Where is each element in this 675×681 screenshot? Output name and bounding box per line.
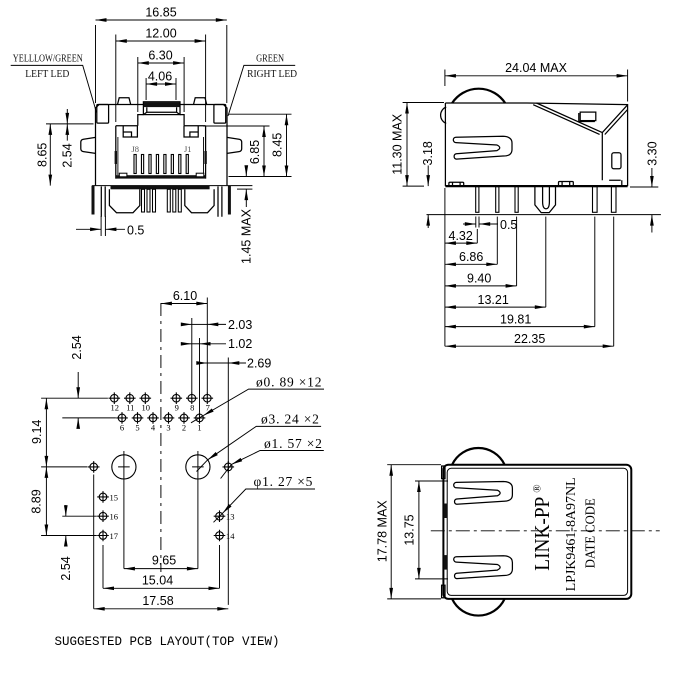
svg-text:12: 12: [111, 403, 120, 413]
svg-text:8.65: 8.65: [36, 143, 50, 167]
svg-text:3: 3: [166, 423, 170, 433]
svg-text:9.65: 9.65: [152, 554, 176, 568]
svg-text:24.04 MAX: 24.04 MAX: [505, 61, 568, 75]
svg-text:13.75: 13.75: [403, 514, 417, 545]
svg-text:φ1. 27 ×5: φ1. 27 ×5: [254, 474, 314, 489]
svg-text:J1: J1: [184, 144, 192, 154]
svg-text:LEFT LED: LEFT LED: [25, 69, 69, 80]
svg-text:2: 2: [182, 423, 186, 433]
svg-text:LINK-PP: LINK-PP: [530, 497, 554, 571]
svg-text:0.5: 0.5: [127, 223, 144, 237]
svg-text:10: 10: [142, 403, 151, 413]
svg-text:9.14: 9.14: [30, 420, 44, 444]
svg-text:3.18: 3.18: [421, 141, 435, 165]
svg-text:17.58: 17.58: [142, 594, 173, 608]
svg-text:4.06: 4.06: [148, 70, 172, 84]
svg-text:J8: J8: [132, 144, 140, 154]
svg-text:2.03: 2.03: [228, 318, 252, 332]
svg-text:2.69: 2.69: [247, 356, 271, 370]
svg-text:ø1. 57 ×2: ø1. 57 ×2: [264, 436, 323, 451]
svg-text:4.32: 4.32: [449, 229, 473, 243]
svg-text:2.54: 2.54: [70, 335, 84, 359]
svg-text:RIGHT LED: RIGHT LED: [247, 69, 297, 80]
svg-text:SUGGESTED PCB LAYOUT(TOP VIEW): SUGGESTED PCB LAYOUT(TOP VIEW): [55, 635, 280, 649]
svg-text:15.04: 15.04: [142, 573, 173, 587]
svg-text:8: 8: [190, 403, 194, 413]
svg-text:ø0. 89 ×12: ø0. 89 ×12: [256, 374, 322, 389]
svg-text:ø3. 24 ×2: ø3. 24 ×2: [261, 411, 320, 426]
svg-text:13: 13: [226, 512, 235, 522]
svg-text:16.85: 16.85: [145, 6, 176, 20]
svg-text:22.35: 22.35: [514, 332, 545, 346]
svg-text:14: 14: [226, 531, 235, 541]
svg-text:17.78 MAX: 17.78 MAX: [376, 500, 390, 563]
svg-text:8.45: 8.45: [271, 133, 285, 157]
svg-text:2.54: 2.54: [59, 556, 73, 580]
svg-text:9.40: 9.40: [467, 272, 491, 286]
svg-text:YELLLOW/GREEN: YELLLOW/GREEN: [13, 54, 83, 65]
svg-text:6.10: 6.10: [173, 289, 197, 303]
svg-text:6.86: 6.86: [459, 250, 483, 264]
svg-text:LPJK9461-8A97NL: LPJK9461-8A97NL: [564, 477, 579, 591]
svg-text:1.45 MAX: 1.45 MAX: [239, 208, 253, 264]
svg-text:6: 6: [120, 423, 124, 433]
svg-text:16: 16: [110, 512, 119, 522]
svg-text:5: 5: [135, 423, 139, 433]
svg-text:GREEN: GREEN: [256, 54, 284, 65]
svg-text:2.54: 2.54: [60, 143, 74, 167]
svg-text:9: 9: [175, 403, 179, 413]
svg-text:6.30: 6.30: [148, 49, 172, 63]
svg-text:7: 7: [206, 403, 210, 413]
svg-text:15: 15: [110, 492, 119, 502]
svg-text:1.02: 1.02: [228, 337, 252, 351]
svg-text:13.21: 13.21: [478, 293, 509, 307]
svg-text:12.00: 12.00: [145, 27, 176, 41]
svg-text:0.5: 0.5: [500, 218, 517, 232]
svg-text:3.30: 3.30: [645, 141, 659, 165]
svg-text:6.85: 6.85: [248, 140, 262, 164]
svg-text:8.89: 8.89: [30, 489, 44, 513]
svg-text:17: 17: [110, 531, 119, 541]
svg-text:DATE CODE: DATE CODE: [584, 498, 599, 568]
svg-text:11: 11: [126, 403, 134, 413]
svg-text:®: ®: [531, 484, 543, 492]
svg-text:11.30 MAX: 11.30 MAX: [390, 113, 404, 175]
svg-text:1: 1: [197, 423, 201, 433]
svg-text:19.81: 19.81: [500, 312, 531, 326]
